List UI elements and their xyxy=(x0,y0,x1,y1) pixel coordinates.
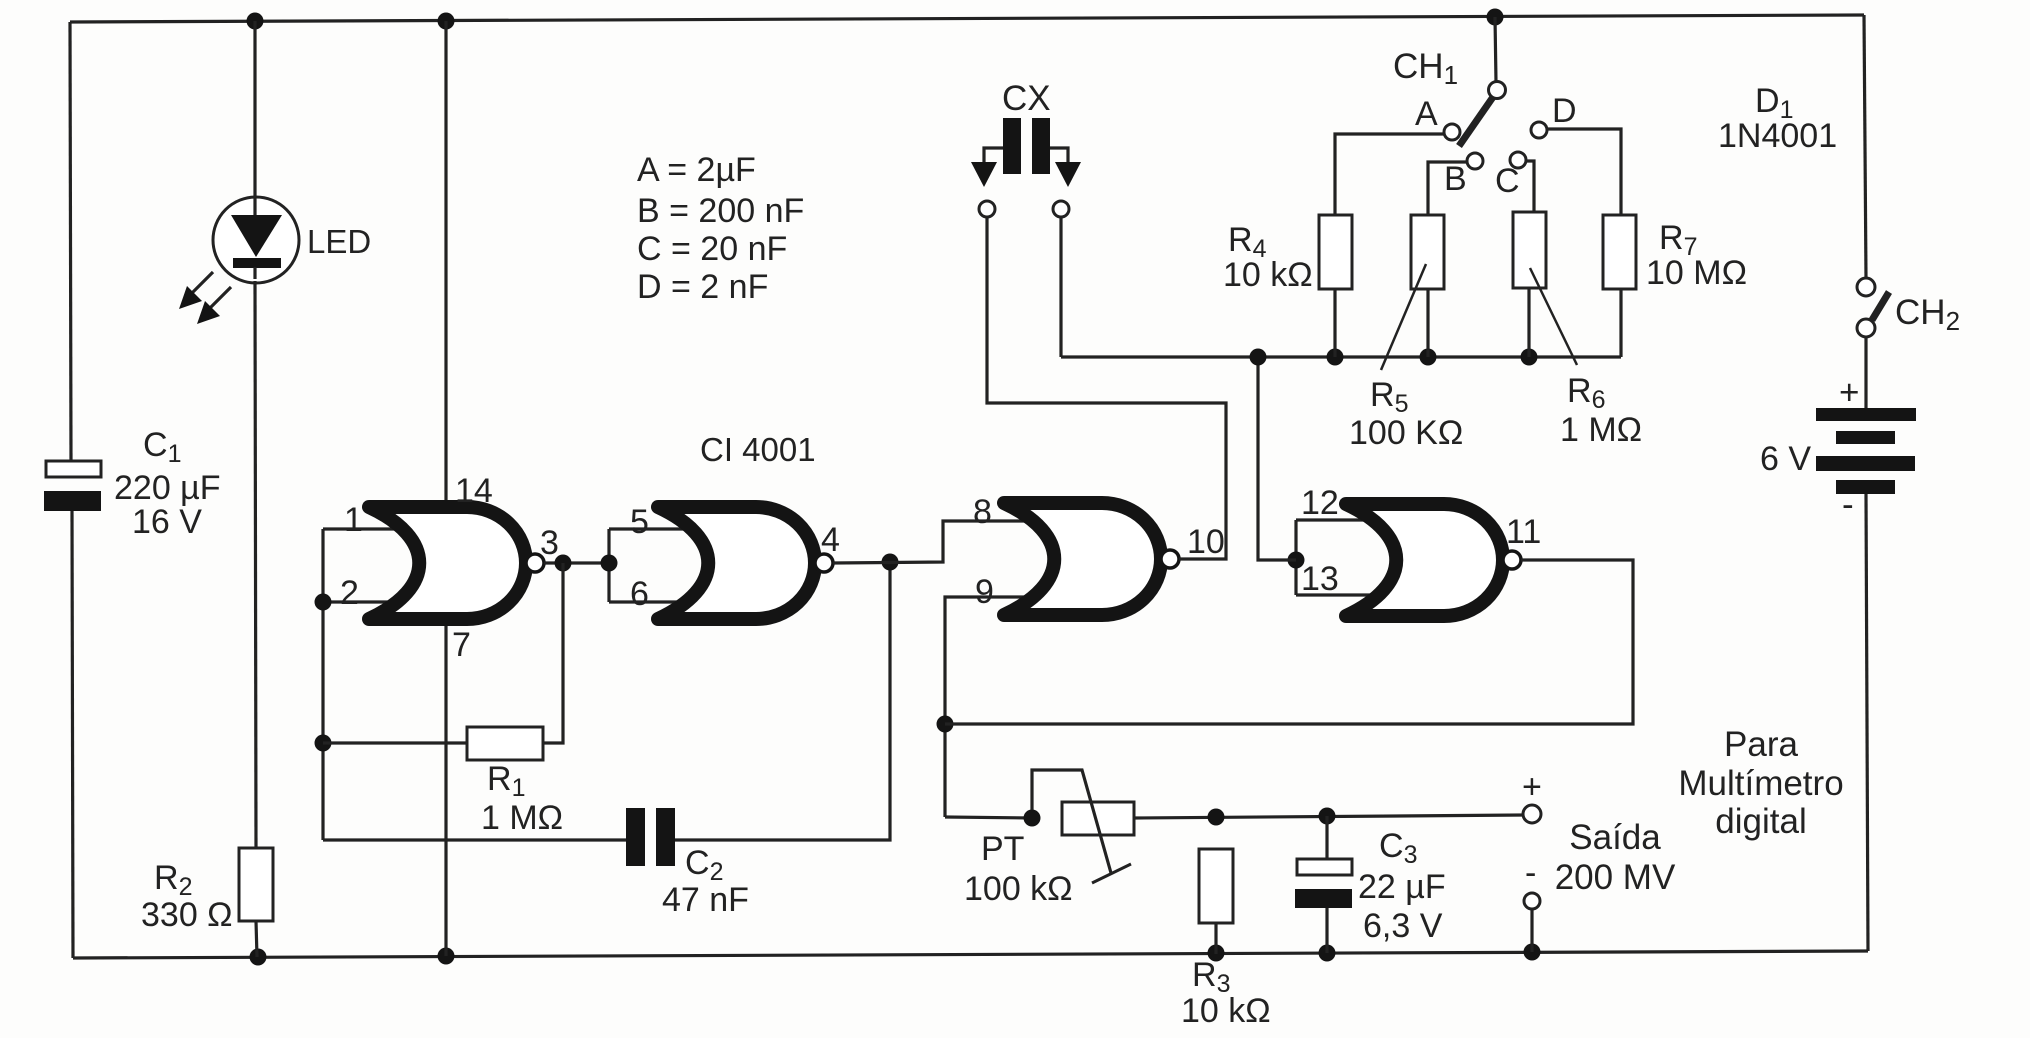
NOR gate U1b xyxy=(658,507,815,619)
svg-text:13: 13 xyxy=(1301,560,1339,598)
label R2 xyxy=(154,859,192,901)
node R3 bottom xyxy=(1208,945,1225,962)
svg-text:12: 12 xyxy=(1301,484,1339,522)
wire R5 bottom xyxy=(1426,289,1429,357)
R6 pointer line xyxy=(1530,268,1577,365)
label CI 4001 xyxy=(700,431,816,468)
label battery plus xyxy=(1839,373,1859,412)
capacitor C1 plate top xyxy=(46,461,101,477)
resistor R5 xyxy=(1411,215,1444,289)
wire gate1 output to gate2 xyxy=(544,561,609,564)
svg-text:7: 7 xyxy=(452,626,471,664)
node R1 left junction xyxy=(315,735,332,752)
wire CH1 pole xyxy=(1495,17,1496,82)
label R6 xyxy=(1567,372,1605,414)
NOR gate U1d xyxy=(1346,504,1503,616)
svg-text:16 V: 16 V xyxy=(132,503,202,541)
label R5 value xyxy=(1349,414,1463,452)
label C3 value xyxy=(1358,868,1446,906)
CH2 contact top xyxy=(1857,278,1875,296)
svg-text:8: 8 xyxy=(973,493,992,531)
wire range bus to gate4 xyxy=(1258,357,1296,560)
label R7 xyxy=(1659,219,1697,261)
svg-text:A: A xyxy=(1415,95,1438,133)
wire bracket to C2 xyxy=(323,838,626,841)
svg-text:220 µF: 220 µF xyxy=(114,469,221,507)
label pin 13 xyxy=(1301,560,1339,598)
label R5 xyxy=(1370,376,1408,418)
PT wiper tick xyxy=(1092,864,1131,883)
label R7 value xyxy=(1646,254,1747,292)
wire top supply rail xyxy=(70,15,1864,22)
svg-text:1 MΩ: 1 MΩ xyxy=(1560,411,1642,449)
wire feedback to PT xyxy=(945,817,1032,818)
CX probe arrow right xyxy=(1050,148,1081,187)
label CH1 xyxy=(1393,47,1458,90)
svg-text:10 kΩ: 10 kΩ xyxy=(1181,992,1271,1030)
label legend D xyxy=(637,268,768,306)
wire contact C to R6 xyxy=(1526,161,1534,212)
label contact D xyxy=(1552,92,1577,130)
label pin 10 xyxy=(1187,523,1225,561)
capacitor CX plate right xyxy=(1032,118,1050,174)
battery plate short 1 xyxy=(1836,431,1895,444)
label pin 3 xyxy=(540,524,559,562)
CH1 contact C xyxy=(1510,152,1526,168)
wire range bus xyxy=(1061,355,1621,358)
svg-text:LED: LED xyxy=(307,223,371,260)
label pin 12 xyxy=(1301,484,1339,522)
svg-text:Multímetro: Multímetro xyxy=(1678,764,1843,803)
svg-text:5: 5 xyxy=(630,503,649,541)
capacitor C3 plate bottom xyxy=(1295,889,1352,908)
label C1 value xyxy=(114,469,221,507)
wire C3 bottom lead xyxy=(1325,908,1328,953)
output terminal minus xyxy=(1524,893,1540,909)
R5 pointer line xyxy=(1381,264,1426,370)
wire R1 left xyxy=(323,741,467,744)
svg-text:47 nF: 47 nF xyxy=(662,881,749,919)
label R1 xyxy=(487,760,525,802)
label pin 4 xyxy=(821,521,840,559)
label contact A xyxy=(1415,95,1438,133)
svg-text:digital: digital xyxy=(1715,802,1806,841)
potentiometer PT body xyxy=(1062,802,1134,835)
svg-text:A = 2µF: A = 2µF xyxy=(637,151,756,189)
NOR gate U1a xyxy=(369,507,526,619)
label battery voltage xyxy=(1760,440,1811,478)
label R6 value xyxy=(1560,411,1642,449)
wire left border upper (to C1) xyxy=(70,22,71,461)
node gate4 input tie xyxy=(1288,552,1305,569)
wire R6 bottom xyxy=(1527,288,1530,357)
label pin 1 xyxy=(344,501,363,539)
wire right border top (to CH2) xyxy=(1864,15,1866,278)
node pin-7 bottom xyxy=(438,948,455,965)
label pin 2 xyxy=(340,574,359,612)
label R4 xyxy=(1228,221,1267,263)
svg-text:14: 14 xyxy=(455,472,493,510)
LED cathode bar xyxy=(233,258,281,268)
resistor R4 xyxy=(1319,215,1352,289)
node pins 1-2 tie xyxy=(315,594,332,611)
label pin 11 xyxy=(1506,513,1541,551)
wire R2 to ground rail xyxy=(256,921,257,957)
label C3 voltage xyxy=(1363,907,1443,945)
node C3 top xyxy=(1319,808,1336,825)
wire R4 bottom xyxy=(1333,289,1336,357)
node top-left LED branch xyxy=(247,13,264,30)
wire bottom ground rail xyxy=(73,951,1868,958)
label PT xyxy=(981,830,1024,868)
output terminal plus xyxy=(1523,805,1541,823)
label D1 xyxy=(1755,82,1793,124)
svg-text:10 MΩ: 10 MΩ xyxy=(1646,254,1747,292)
resistor R6 xyxy=(1513,212,1546,288)
LED circle xyxy=(213,197,299,283)
CH1 pole contact xyxy=(1489,82,1506,99)
resistor R7 xyxy=(1603,215,1636,289)
label Multimetro xyxy=(1678,764,1843,803)
svg-text:Saída: Saída xyxy=(1569,818,1661,857)
label CX xyxy=(1002,79,1051,118)
label output minus sign xyxy=(1525,854,1536,892)
wire pin 9 branch xyxy=(945,597,1049,817)
wire contact A to R4 xyxy=(1335,134,1444,215)
svg-text:B = 200 nF: B = 200 nF xyxy=(637,192,804,230)
label C2 xyxy=(685,844,723,886)
svg-text:D: D xyxy=(1552,92,1577,130)
node output minus bottom xyxy=(1524,944,1541,961)
label R1 value xyxy=(481,799,563,837)
svg-text:10: 10 xyxy=(1187,523,1225,561)
svg-text:11: 11 xyxy=(1506,513,1541,551)
wire minus terminal to ground xyxy=(1530,909,1533,952)
wire contact D to R7 xyxy=(1547,129,1621,215)
wire C2 to gate2 output xyxy=(675,562,890,840)
label output plus sign xyxy=(1522,768,1542,806)
LED cathode lead xyxy=(253,267,256,279)
gate U1d output bubble xyxy=(1503,551,1521,569)
wire CH2 to battery xyxy=(1864,337,1867,408)
svg-text:1: 1 xyxy=(344,501,363,539)
svg-text:1 MΩ: 1 MΩ xyxy=(481,799,563,837)
svg-text:Para: Para xyxy=(1724,725,1798,764)
label pin 5 xyxy=(630,503,649,541)
LED arrow 1 xyxy=(179,272,213,309)
wire pin 12 xyxy=(1296,518,1391,521)
label legend C xyxy=(637,230,787,268)
svg-text:22 µF: 22 µF xyxy=(1358,868,1446,906)
LED triangle xyxy=(231,215,282,257)
node bus R4 xyxy=(1327,349,1344,366)
wire gate4 output loop xyxy=(945,560,1633,724)
wire left border lower (from C1) xyxy=(72,511,73,958)
PT wiper loop xyxy=(1032,770,1111,873)
label pin 9 xyxy=(975,573,994,611)
wire pin 13 xyxy=(1296,593,1391,596)
svg-text:C = 20 nF: C = 20 nF xyxy=(637,230,787,268)
label contact C xyxy=(1495,162,1520,200)
wire CX right terminal to bus xyxy=(1059,217,1062,357)
wire gate1 input bracket xyxy=(321,529,324,840)
label Saida xyxy=(1569,818,1661,857)
wire pin 2 xyxy=(323,600,414,603)
capacitor C3 plate top xyxy=(1297,859,1352,875)
resistor R2 xyxy=(239,848,273,921)
wire pin 5 xyxy=(609,527,703,530)
svg-text:4: 4 xyxy=(821,521,840,559)
svg-text:-: - xyxy=(1525,854,1536,892)
label Para xyxy=(1724,725,1798,764)
svg-text:3: 3 xyxy=(540,524,559,562)
battery plate long 2 xyxy=(1816,456,1915,471)
node C2 feedback junction xyxy=(882,554,899,571)
svg-text:+: + xyxy=(1839,373,1859,412)
svg-text:+: + xyxy=(1522,768,1542,806)
label C1 voltage xyxy=(132,503,202,541)
node bus gate4 tap xyxy=(1250,349,1267,366)
LED anode lead xyxy=(253,195,256,218)
label CH2 xyxy=(1895,293,1960,336)
gate U1a output bubble xyxy=(526,554,544,572)
node top pin-14 branch xyxy=(438,13,455,30)
wire gate3 output to CX xyxy=(987,217,1226,559)
svg-text:CX: CX xyxy=(1002,79,1051,118)
node top CH1 branch xyxy=(1487,9,1504,26)
label PT value xyxy=(964,870,1073,908)
label R3 xyxy=(1192,956,1230,998)
CH1 contact D xyxy=(1531,122,1547,138)
node gate2 input tie xyxy=(601,555,618,572)
capacitor C2 plate left xyxy=(626,808,645,866)
label C3 xyxy=(1379,827,1417,869)
label digital xyxy=(1715,802,1806,841)
label legend B xyxy=(637,192,804,230)
svg-text:330 Ω: 330 Ω xyxy=(141,896,233,934)
label LED xyxy=(307,223,371,260)
wire gate2 output xyxy=(833,521,1049,563)
CH2 lever xyxy=(1872,292,1889,320)
svg-text:9: 9 xyxy=(975,573,994,611)
label pin 8 xyxy=(973,493,992,531)
svg-text:C: C xyxy=(1495,162,1520,200)
wire pin 14 / pin 7 vertical xyxy=(444,21,447,956)
svg-text:10 kΩ: 10 kΩ xyxy=(1223,256,1313,294)
NOR gate U1c xyxy=(1004,503,1161,615)
svg-text:PT: PT xyxy=(981,830,1024,868)
wire contact B to R5 xyxy=(1428,162,1467,215)
node PT left xyxy=(1024,810,1041,827)
wire top rail to LED xyxy=(253,21,256,195)
label pin 6 xyxy=(630,575,649,613)
gate U1c output bubble xyxy=(1161,550,1179,568)
svg-text:D = 2 nF: D = 2 nF xyxy=(637,268,768,306)
label contact B xyxy=(1444,160,1467,198)
label C2 value xyxy=(662,881,749,919)
battery plate short 2 xyxy=(1836,480,1895,494)
CH1 lever xyxy=(1459,97,1493,146)
resistor R3 xyxy=(1199,849,1233,923)
CX terminal left xyxy=(979,201,995,217)
node C3 bottom xyxy=(1319,945,1336,962)
resistor R1 xyxy=(467,727,543,760)
node gate1 output junction xyxy=(555,555,572,572)
capacitor C2 plate right xyxy=(656,808,675,866)
label R2 value xyxy=(141,896,233,934)
svg-text:CI 4001: CI 4001 xyxy=(700,431,816,468)
wire C3 top lead xyxy=(1325,816,1328,859)
svg-text:2: 2 xyxy=(340,574,359,612)
node bus R6 xyxy=(1521,349,1538,366)
wire LED to R2 xyxy=(255,281,256,848)
label D1 type xyxy=(1718,117,1837,155)
LED arrow 2 xyxy=(197,287,231,324)
svg-text:6,3 V: 6,3 V xyxy=(1363,907,1443,945)
CH1 contact A xyxy=(1444,124,1460,140)
svg-text:200 MV: 200 MV xyxy=(1555,858,1676,897)
label pin 7 xyxy=(452,626,471,664)
wire pin 1 xyxy=(323,527,414,530)
node feedback junction xyxy=(937,716,954,733)
wire pin 6 xyxy=(609,600,703,603)
wire gate2 input bracket xyxy=(607,529,610,602)
label legend A xyxy=(637,151,756,189)
CH1 contact B xyxy=(1467,153,1483,169)
svg-text:100 kΩ: 100 kΩ xyxy=(964,870,1073,908)
svg-text:B: B xyxy=(1444,160,1467,198)
wire R7 bottom xyxy=(1619,289,1622,357)
svg-text:6 V: 6 V xyxy=(1760,440,1811,478)
svg-text:100 KΩ: 100 KΩ xyxy=(1349,414,1463,452)
label pin 14 xyxy=(455,472,493,510)
label R4 value xyxy=(1223,256,1313,294)
CX terminal right xyxy=(1053,201,1069,217)
label R3 value xyxy=(1181,992,1271,1030)
wire gate4 input bracket xyxy=(1294,520,1297,595)
CX probe arrow left xyxy=(971,148,1003,187)
wire R1 right riser xyxy=(543,563,563,743)
label C1 xyxy=(143,426,181,468)
CH2 contact bottom xyxy=(1857,319,1875,337)
node bus R5 xyxy=(1420,349,1437,366)
svg-text:1N4001: 1N4001 xyxy=(1718,117,1837,155)
node R2 bottom xyxy=(250,949,267,966)
gate U1b output bubble xyxy=(815,554,833,572)
wire R3 bottom xyxy=(1214,923,1217,954)
wire battery to ground rail xyxy=(1866,494,1868,951)
node R3 top xyxy=(1208,809,1225,826)
label battery minus xyxy=(1842,485,1854,524)
capacitor CX plate left xyxy=(1003,118,1021,174)
svg-text:-: - xyxy=(1842,485,1854,524)
capacitor C1 plate bottom xyxy=(44,491,101,511)
battery plate long 1 xyxy=(1816,408,1916,421)
svg-text:6: 6 xyxy=(630,575,649,613)
wire PT to output plus xyxy=(1134,815,1524,818)
label 200 MV xyxy=(1555,858,1676,897)
